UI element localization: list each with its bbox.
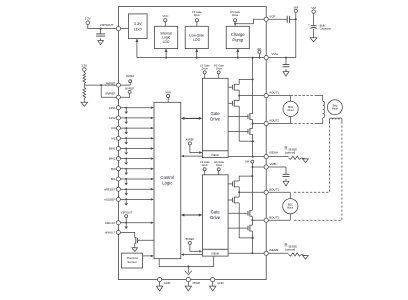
wire thermal sensor to control logic bbox=[143, 255, 154, 257]
svg-text:VM: VM bbox=[245, 160, 249, 164]
wire bus up into Low-Side LDO bbox=[195, 49, 198, 59]
HS Gate Drive terminal (bridge A) bbox=[214, 63, 225, 78]
svg-text:nSLEEP: nSLEEP bbox=[104, 198, 115, 202]
pin AI1 with pulldown and wire to control logic bbox=[111, 136, 154, 144]
HS Gate Drive net terminal (charge pump output) bbox=[230, 10, 241, 26]
wire transistor source to ground bbox=[134, 243, 136, 246]
svg-text:Gate: Gate bbox=[211, 210, 221, 215]
svg-text:VM: VM bbox=[257, 47, 261, 51]
wire VMA to decoupling cap and VM line bbox=[268, 57, 296, 59]
wire VM to bulk capacitor bbox=[313, 13, 315, 25]
svg-text:VCC: VCC bbox=[163, 14, 169, 18]
svg-text:AOUT2: AOUT2 bbox=[269, 119, 279, 123]
BDC motor B bbox=[283, 192, 298, 220]
svg-text:R: R bbox=[285, 242, 288, 247]
resistor R_SENSE A bbox=[268, 146, 301, 160]
wire AOUT1 to BDC motor A bbox=[268, 95, 290, 97]
svg-text:V3P3OUT: V3P3OUT bbox=[100, 23, 114, 27]
svg-text:3.3V: 3.3V bbox=[81, 64, 87, 68]
svg-text:LDO: LDO bbox=[134, 27, 142, 31]
wire divider node to AVREF pin bbox=[84, 84, 116, 86]
svg-text:BOUT1: BOUT1 bbox=[269, 187, 279, 191]
svg-text:BIN1: BIN1 bbox=[109, 147, 116, 151]
pin ISENB bbox=[264, 248, 278, 255]
ground (PPAD) bbox=[185, 282, 191, 291]
ground (GND left) bbox=[156, 282, 162, 291]
Thermal Sensor block bbox=[121, 253, 142, 268]
ground (bulk capacitor) bbox=[310, 38, 317, 42]
wire VMB into bridge bbox=[251, 166, 264, 168]
svg-text:PPAD: PPAD bbox=[193, 281, 200, 285]
AVREF net terminal bbox=[120, 74, 134, 85]
svg-text:nRESET: nRESET bbox=[104, 187, 116, 191]
pin V3P3OUT bbox=[100, 23, 121, 31]
svg-text:BVREF: BVREF bbox=[125, 87, 134, 91]
svg-text:Drive: Drive bbox=[202, 163, 209, 167]
capacitor V3P3OUT bypass bbox=[96, 29, 105, 36]
wire BOUT1 to BDC motor B bbox=[268, 191, 290, 193]
svg-text:Drive: Drive bbox=[210, 215, 220, 220]
dashed wire AOUT1 to step winding bbox=[291, 95, 317, 97]
BVREF net terminal (gate drive B) bbox=[186, 237, 203, 252]
capacitor VMA decoupling bbox=[283, 58, 290, 67]
ground (divider) bbox=[81, 100, 88, 106]
AVREF net terminal (gate drive A) bbox=[186, 138, 203, 154]
svg-text:GND: GND bbox=[164, 281, 170, 285]
dashed wire AOUT2 to step winding bbox=[291, 123, 317, 125]
pin BOUT1 bbox=[264, 187, 279, 194]
pin GND (left) bbox=[158, 278, 171, 285]
svg-text:GND: GND bbox=[217, 281, 223, 285]
ground (VMA cap) bbox=[283, 69, 289, 76]
svg-text:Drive: Drive bbox=[194, 13, 201, 17]
svg-text:DECAY: DECAY bbox=[105, 221, 115, 225]
ground (nFAULT transistor) bbox=[132, 247, 138, 252]
svg-text:BOUT2: BOUT2 bbox=[269, 215, 279, 219]
svg-text:BI1: BI1 bbox=[111, 177, 116, 181]
VM terminal (bulk) bbox=[311, 6, 316, 13]
svg-text:Sensor: Sensor bbox=[127, 260, 137, 264]
3.3V terminal (reference divider) bbox=[81, 64, 87, 72]
svg-text:AVREF: AVREF bbox=[106, 81, 116, 85]
ISENA to control logic arrow bbox=[181, 155, 203, 157]
transistor low-side A2 bbox=[228, 124, 253, 142]
Gate Drive B block bbox=[202, 175, 228, 250]
svg-text:Charge: Charge bbox=[231, 32, 245, 37]
pin AIN1 with pulldown and wire to control logic bbox=[109, 106, 154, 114]
V3P3OUT pull-up terminal (DECAY) bbox=[120, 211, 132, 223]
svg-text:Motor: Motor bbox=[288, 109, 294, 112]
pin BOUT2 bbox=[264, 215, 279, 222]
svg-text:Gate: Gate bbox=[211, 111, 221, 116]
wire transistor gate to control logic bbox=[138, 239, 155, 241]
dashed wire winding B to BOUT2 bbox=[293, 122, 342, 221]
Gate Drive A block bbox=[202, 78, 228, 151]
ISENB to control logic arrow bbox=[181, 253, 203, 255]
pin GND (right) bbox=[211, 278, 224, 285]
transistor high-side A2 bbox=[228, 113, 254, 124]
svg-text:Drive: Drive bbox=[216, 163, 223, 167]
pin DECAY bbox=[105, 221, 120, 225]
pin BVREF bbox=[105, 92, 120, 100]
Control Logic block bbox=[154, 102, 181, 258]
svg-text:BVREF: BVREF bbox=[186, 237, 195, 241]
svg-text:Drive: Drive bbox=[210, 116, 220, 121]
HS Gate Drive terminal (bridge B) bbox=[214, 160, 225, 175]
LS Gate Drive terminal (bridge A) bbox=[200, 63, 210, 78]
Charge Pump block bbox=[226, 26, 249, 48]
pin VMB bbox=[264, 162, 276, 169]
svg-text:VM: VM bbox=[311, 6, 316, 10]
pin BIN1 with pulldown and wire to control logic bbox=[109, 147, 154, 155]
ground (GND right) bbox=[210, 282, 216, 291]
svg-text:VCC: VCC bbox=[165, 90, 171, 94]
transistor low-side B2 bbox=[228, 220, 252, 238]
svg-text:3.3V: 3.3V bbox=[134, 22, 142, 26]
wire BOUT2 to BDC motor B bbox=[268, 219, 290, 221]
svg-text:AOUT1: AOUT1 bbox=[269, 91, 279, 95]
svg-text:AVREF: AVREF bbox=[126, 74, 135, 78]
svg-text:ISENA: ISENA bbox=[211, 154, 219, 157]
svg-text:Pump: Pump bbox=[232, 38, 244, 43]
svg-text:V3P3OUT: V3P3OUT bbox=[120, 211, 132, 215]
bridge A source rail to ISENA bbox=[239, 140, 254, 157]
svg-text:Drive: Drive bbox=[216, 66, 223, 70]
svg-text:Control: Control bbox=[161, 175, 175, 180]
pin AIN2 with pulldown and wire to control logic bbox=[109, 116, 154, 124]
ISENB sense block bbox=[202, 249, 228, 256]
svg-text:VM: VM bbox=[294, 5, 299, 9]
bridge B source rail to ISENB bbox=[239, 237, 254, 254]
LS Gate Drive terminal (bridge B) bbox=[200, 160, 210, 175]
pin AOUT2 bbox=[264, 119, 279, 126]
3.3V terminal (V3P3OUT supply) bbox=[85, 17, 91, 25]
wire V3P3OUT pin to 3.3V LDO bbox=[121, 28, 129, 30]
bulk capacitor bbox=[308, 23, 331, 30]
pin BI0 with pulldown and wire to control logic bbox=[111, 167, 154, 175]
transistor high-side A1 bbox=[228, 78, 254, 95]
pin VCP bbox=[264, 15, 275, 22]
ISENA sense block bbox=[202, 151, 228, 158]
resistor divider lower bbox=[83, 85, 86, 100]
svg-text:Drive: Drive bbox=[202, 66, 209, 70]
capacitor VMB decoupling bbox=[268, 167, 289, 177]
svg-text:AI1: AI1 bbox=[111, 136, 116, 140]
pin BI1 with pulldown and wire to control logic bbox=[111, 177, 154, 185]
LS Gate Drive net terminal (LDO output) bbox=[192, 10, 202, 26]
ground (R_SENSE B) bbox=[302, 255, 309, 260]
capacitor VCP-VM bbox=[287, 16, 289, 23]
transistor low-side A1 bbox=[228, 95, 240, 142]
wire AOUT2 to BDC motor A bbox=[268, 123, 290, 125]
wire divider node to BVREF pin bbox=[101, 85, 116, 97]
pin VMA bbox=[264, 52, 278, 60]
svg-text:R: R bbox=[285, 146, 288, 151]
svg-text:AIN2: AIN2 bbox=[109, 116, 116, 120]
transistor high-side B2 bbox=[228, 210, 253, 221]
svg-text:BI0: BI0 bbox=[111, 167, 116, 171]
3.3V LDO block bbox=[128, 14, 147, 39]
wire nFAULT to transistor drain bbox=[120, 232, 135, 237]
svg-text:(optional): (optional) bbox=[285, 248, 296, 251]
control logic to gate drive A bus arrows bbox=[181, 117, 203, 120]
step motor winding A bbox=[317, 96, 325, 124]
wire bulk capacitor to ground bbox=[313, 29, 315, 38]
svg-text:VCP: VCP bbox=[269, 15, 275, 19]
VM feed wire bridge B bbox=[251, 167, 253, 210]
pin nRESET with pulldown and wire to control logic bbox=[104, 187, 154, 195]
step motor winding B bbox=[330, 118, 342, 122]
transistor nFAULT open-drain bbox=[135, 237, 138, 244]
svg-text:LDO: LDO bbox=[163, 40, 170, 44]
ground (R_SENSE A) bbox=[302, 158, 309, 163]
BDC motor A bbox=[283, 96, 298, 124]
pin AOUT1 bbox=[264, 91, 279, 98]
wire ISENA block to pin bbox=[228, 156, 264, 158]
svg-text:Capacitor: Capacitor bbox=[320, 27, 332, 31]
wire VCP to flying capacitor bbox=[268, 18, 287, 20]
svg-text:VMB: VMB bbox=[269, 162, 276, 166]
svg-text:Motor: Motor bbox=[332, 108, 338, 111]
wire bus up into Charge Pump bbox=[236, 49, 239, 59]
VM terminal (top) bbox=[294, 5, 299, 57]
svg-text:ISENA: ISENA bbox=[269, 150, 278, 154]
transistor low-side B1 bbox=[228, 191, 240, 238]
wire 3.3V to V3P3OUT pin bbox=[88, 25, 117, 30]
control logic to PPAD wire bbox=[159, 256, 214, 267]
BVREF net terminal bbox=[120, 87, 134, 98]
Step Motor bbox=[327, 100, 342, 115]
svg-text:Motor: Motor bbox=[287, 207, 293, 210]
transistor high-side B1 bbox=[228, 175, 253, 192]
svg-text:BIN2: BIN2 bbox=[109, 157, 116, 161]
svg-text:BVREF: BVREF bbox=[105, 92, 115, 96]
Internal Logic LDO block bbox=[155, 26, 178, 48]
ground (VMB cap) bbox=[283, 179, 289, 186]
IC boundary bbox=[118, 7, 266, 280]
control logic to gate drive B bus arrows bbox=[181, 214, 203, 217]
wire BOUT1 internal bbox=[239, 191, 264, 193]
resistor divider upper bbox=[83, 71, 86, 85]
svg-text:AI0: AI0 bbox=[111, 126, 116, 130]
Low-Side LDO block bbox=[185, 26, 208, 48]
VM net terminal (bridge B) bbox=[245, 160, 254, 167]
VCC terminal (control logic) bbox=[165, 90, 171, 102]
svg-text:ISENB: ISENB bbox=[269, 248, 278, 252]
PPAD connection arrow bbox=[185, 268, 192, 275]
pin AVREF bbox=[106, 81, 121, 87]
svg-text:Logic: Logic bbox=[162, 181, 172, 186]
wire charge pump to VCP bbox=[235, 19, 264, 23]
pin nSLEEP with pulldown and wire to control logic bbox=[104, 197, 154, 205]
VM feed wire bridge A bbox=[252, 57, 254, 114]
wire capacitor to VM line bbox=[289, 18, 296, 20]
svg-text:nFAULT: nFAULT bbox=[105, 231, 116, 235]
wire bus up into Internal Logic LDO bbox=[165, 49, 168, 59]
svg-text:Drive: Drive bbox=[232, 13, 239, 17]
wire ISENB block to pin bbox=[228, 252, 264, 254]
svg-text:(optional): (optional) bbox=[285, 152, 296, 155]
wire AOUT2 internal bbox=[253, 123, 265, 125]
pin nFAULT bbox=[105, 230, 121, 234]
wire AOUT1 internal bbox=[239, 95, 264, 97]
wire BOUT2 internal bbox=[252, 219, 264, 221]
svg-text:3.3V: 3.3V bbox=[85, 17, 91, 21]
pin ISENA bbox=[264, 150, 278, 158]
svg-text:LDO: LDO bbox=[193, 38, 200, 42]
svg-text:AVREF: AVREF bbox=[186, 138, 195, 142]
resistor R_SENSE B bbox=[268, 242, 301, 256]
wire bus up into 3.3V LDO bbox=[136, 39, 139, 58]
ground (V3P3OUT cap) bbox=[98, 38, 104, 44]
wire DECAY to control logic bbox=[120, 222, 154, 229]
svg-text:AIN1: AIN1 bbox=[109, 106, 116, 110]
svg-text:ISENB: ISENB bbox=[211, 253, 219, 256]
pin PPAD bbox=[186, 278, 200, 285]
svg-text:Low-Side: Low-Side bbox=[189, 34, 204, 38]
svg-text:VMA: VMA bbox=[271, 52, 278, 56]
VCC terminal (internal logic LDO) bbox=[163, 14, 169, 26]
dashed wire winding B to BOUT1 bbox=[293, 122, 330, 193]
pin BIN2 with pulldown and wire to control logic bbox=[109, 157, 154, 165]
VM net terminal (bridge A) bbox=[257, 47, 261, 59]
VM internal bus wire bbox=[137, 57, 264, 59]
pin AI0 with pulldown and wire to control logic bbox=[111, 126, 154, 134]
